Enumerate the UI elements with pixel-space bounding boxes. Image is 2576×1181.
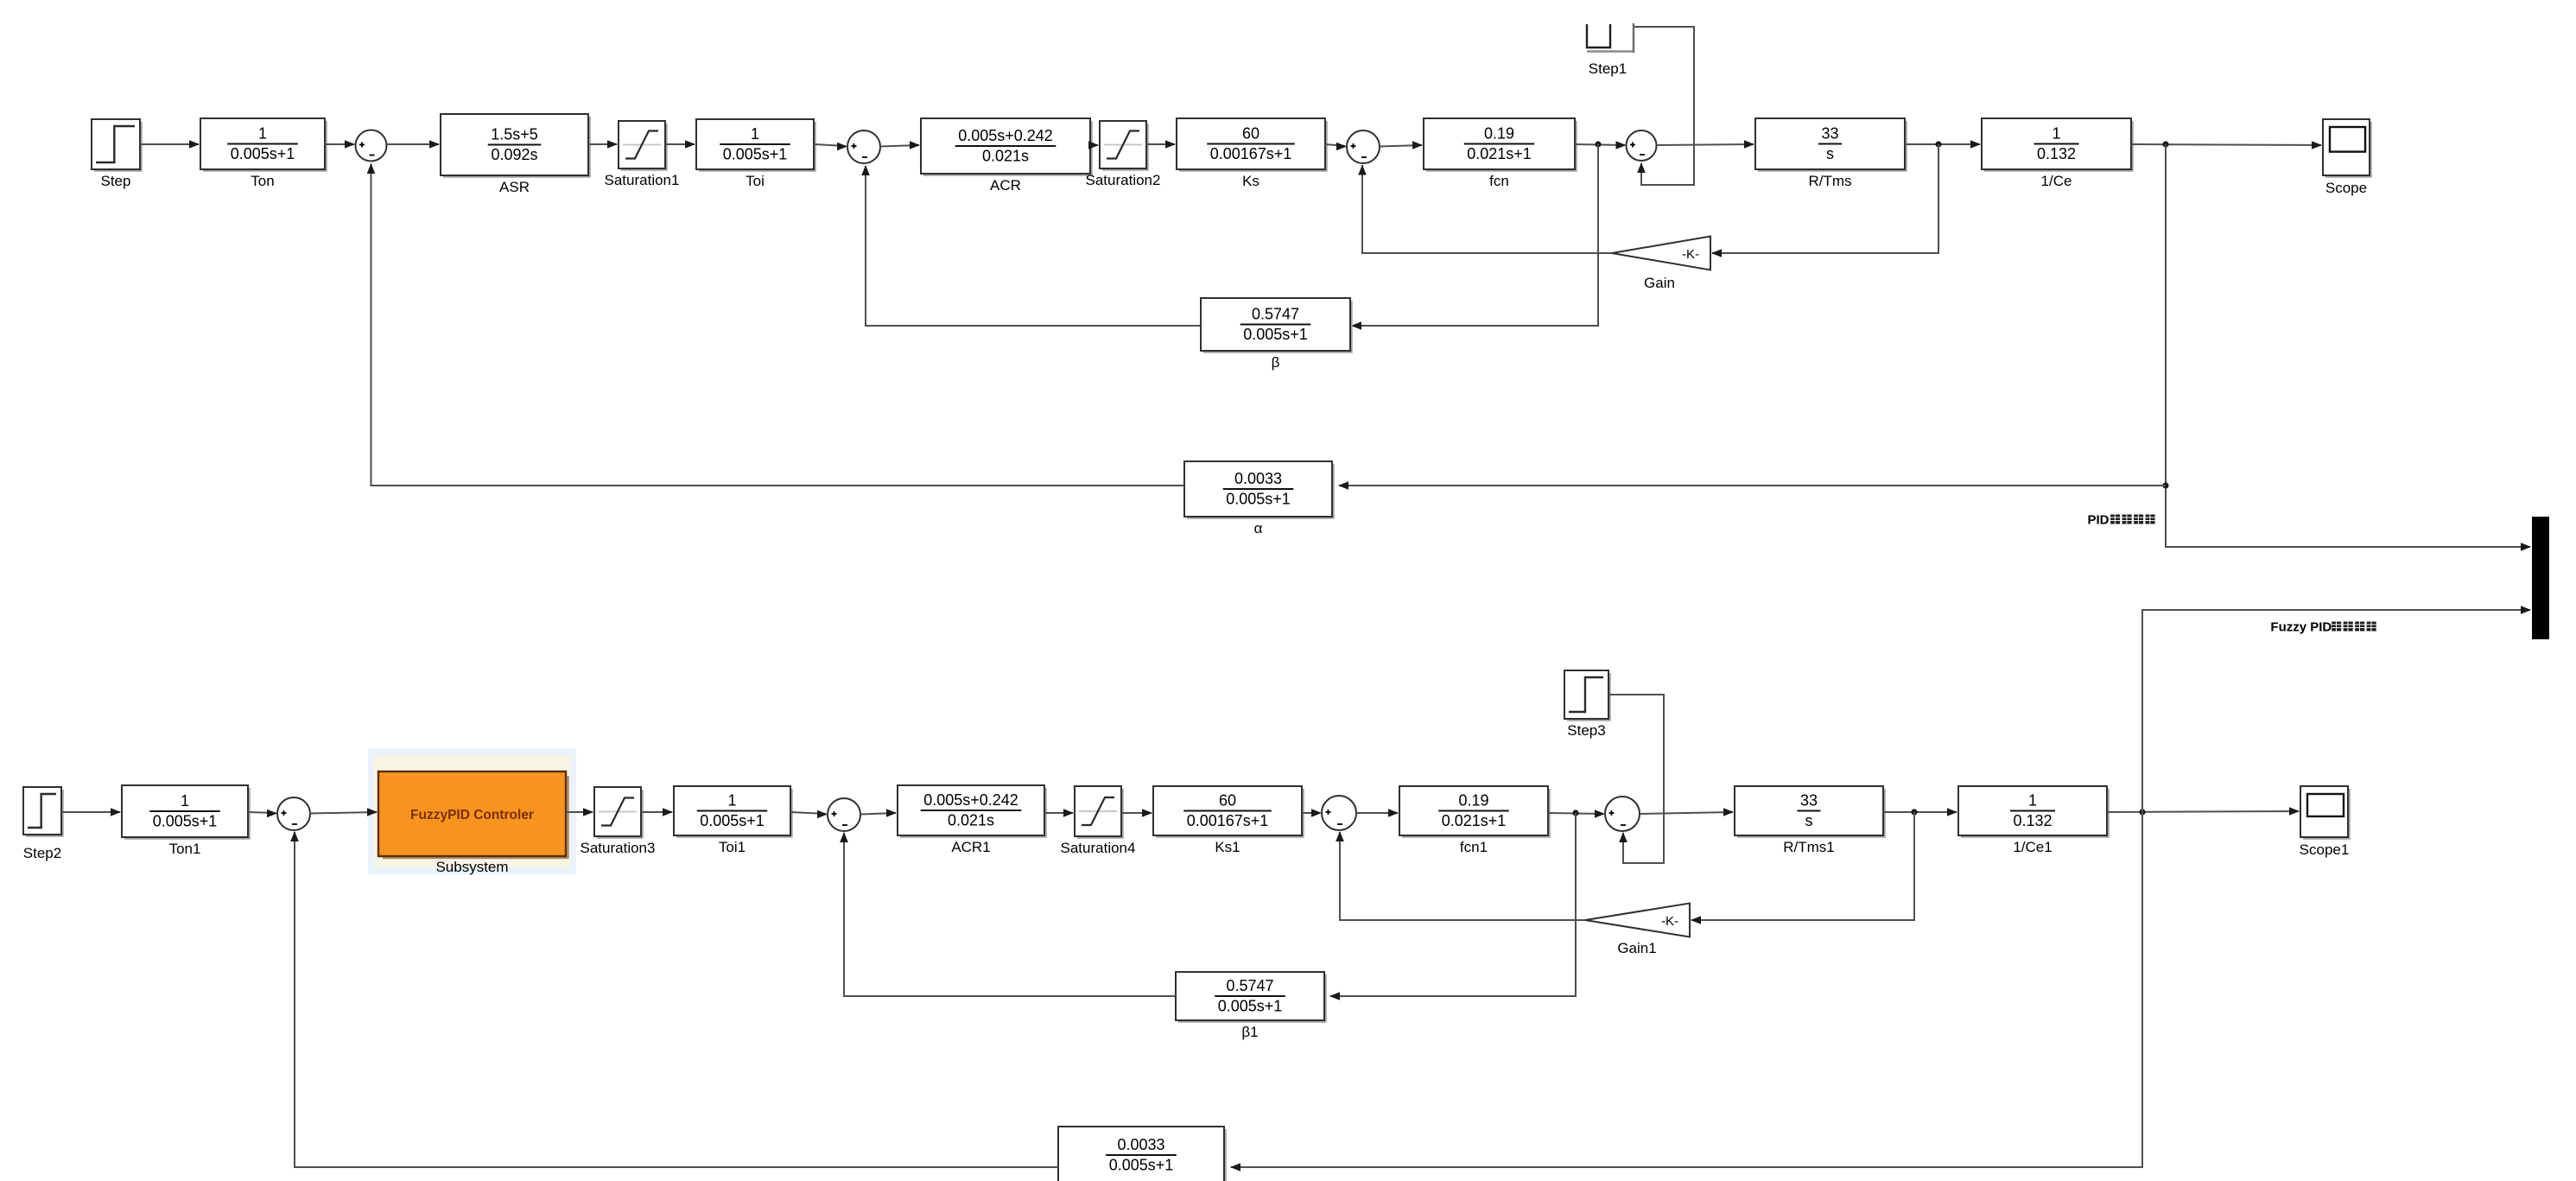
svg-text:0.005s+1: 0.005s+1 (1109, 1157, 1174, 1174)
svg-text:0.5747: 0.5747 (1252, 306, 1299, 323)
saturation block Saturation3 (641, 790, 644, 839)
wire beta output to Sum2 bottom input (866, 166, 1201, 326)
wire Sum2 to ACR (880, 145, 919, 147)
transfer function ACR1 (0.005s+0.242)/0.021s (1044, 788, 1047, 838)
svg-text:Toi1: Toi1 (719, 839, 746, 855)
svg-text:Toi: Toi (746, 173, 765, 189)
sum junction Sum3b (1322, 796, 1356, 830)
svg-text:0.005s+0.242: 0.005s+0.242 (923, 791, 1018, 809)
svg-text:Scope1: Scope1 (2300, 841, 2350, 858)
svg-text:0.005s+1: 0.005s+1 (1226, 491, 1291, 508)
svg-text:33: 33 (1821, 125, 1838, 143)
transfer function ACR (0.005s+0.242)/0.021s (1090, 121, 1093, 176)
wire Ton1 to Sum1b (248, 812, 276, 813)
wire alpha1 output to Sum1b bottom input (295, 832, 1058, 1167)
wire Ks1 to Sum3b (1302, 812, 1320, 814)
wire fcn1 to Sum4b with junction node (1548, 813, 1603, 814)
svg-text:Step3: Step3 (1567, 722, 1605, 739)
svg-text:Step: Step (101, 173, 131, 189)
svg-text:α: α (1254, 520, 1263, 537)
transfer function fcn 0.19/(0.021s+1) (1575, 121, 1577, 172)
svg-text:R/Tms1: R/Tms1 (1783, 839, 1835, 855)
transfer function alpha 0.0033/(0.005s+1) (1332, 464, 1335, 519)
sum junction Sum2b (828, 798, 860, 831)
wire Gain1 output to Sum3b bottom input (1340, 832, 1585, 920)
step source block Step3 (1608, 673, 1611, 721)
svg-text:0.021s+1: 0.021s+1 (1467, 145, 1532, 162)
wire Toi to Sum2 (814, 144, 846, 146)
svg-text:0.132: 0.132 (2013, 812, 2052, 829)
svg-text:Saturation2: Saturation2 (1086, 172, 1161, 188)
wire 1/Ce1 junction down to alpha1 block (1231, 812, 2142, 1167)
svg-text:β: β (1272, 354, 1280, 371)
svg-text:0.005s+1: 0.005s+1 (700, 812, 765, 829)
mux block (2532, 517, 2549, 639)
wire Subsystem to Saturation3 (566, 811, 593, 813)
wire Ks to Sum3 (1325, 144, 1345, 146)
wire ASR to Saturation1 (588, 143, 617, 145)
wire Sum3 to fcn (1380, 145, 1422, 147)
saturation block Saturation2 (1146, 124, 1149, 171)
svg-text:1.5s+5: 1.5s+5 (491, 126, 538, 143)
wire Sum4b to R/Tms1 (1640, 812, 1733, 814)
svg-text:Ton1: Ton1 (169, 841, 201, 857)
wire alpha output to Sum1 bottom input (371, 164, 1185, 486)
scope block Scope1 (2348, 789, 2351, 840)
svg-text:Ks1: Ks1 (1215, 839, 1240, 855)
wire Saturation3 to Toi1 (641, 811, 672, 813)
wire Step2 to Ton1 (61, 811, 120, 813)
wire Ton to Sum1 (325, 143, 354, 145)
transfer function R/Tms1 33/s (1883, 789, 1886, 838)
svg-text:1/Ce1: 1/Ce1 (2013, 839, 2052, 855)
wire 1/Ce1 junction up to mux (Fuzzy branch) (2142, 610, 2530, 812)
wire R/Tms junction down to Gain input (1712, 144, 1938, 253)
svg-text:0.005s+1: 0.005s+1 (1218, 998, 1283, 1015)
svg-text:0.092s: 0.092s (491, 146, 537, 163)
subsystem block FuzzyPID Controller (368, 748, 576, 874)
svg-text:1/Ce: 1/Ce (2041, 173, 2072, 189)
svg-text:0.005s+1: 0.005s+1 (231, 145, 295, 162)
svg-text:-K-: -K- (1682, 247, 1699, 262)
svg-text:fcn1: fcn1 (1460, 839, 1488, 855)
wire R/Tms to 1/Ce with junction node (1905, 143, 1980, 145)
svg-text:1: 1 (2028, 792, 2037, 810)
transfer function Ton1 1/(0.005s+1) (248, 788, 251, 840)
svg-text:0.0033: 0.0033 (1234, 470, 1282, 487)
svg-text:ASR: ASR (499, 179, 530, 195)
svg-text:0.5747: 0.5747 (1226, 977, 1273, 994)
sum junction Sum1b (277, 797, 310, 830)
svg-text:0.0033: 0.0033 (1117, 1136, 1164, 1153)
wire beta1 output to Sum2b bottom input (844, 833, 1176, 996)
transfer function alpha1 0.0033/(0.005s+1) (1224, 1129, 1227, 1181)
wire ACR1 to Saturation4 (1044, 812, 1073, 814)
svg-text:0.021s: 0.021s (982, 148, 1029, 165)
transfer function ASR (1.5s+5)/0.092s (588, 117, 591, 178)
saturation block Saturation1 (665, 124, 668, 171)
svg-text:0.005s+1: 0.005s+1 (153, 813, 218, 830)
svg-text:s: s (1826, 145, 1834, 162)
svg-text:1: 1 (181, 792, 189, 810)
wire Saturation1 to Toi (665, 143, 695, 145)
svg-text:60: 60 (1219, 792, 1236, 810)
svg-text:ACR1: ACR1 (951, 839, 990, 855)
svg-text:1: 1 (751, 125, 759, 143)
svg-text:FuzzyPID Controler: FuzzyPID Controler (410, 808, 534, 822)
wire Step to Ton (140, 143, 199, 145)
wire R/Tms1 to 1/Ce1 with junction node (1883, 811, 1957, 813)
svg-text:1: 1 (258, 125, 267, 143)
wire Sum4 to R/Tms (1657, 144, 1754, 145)
svg-text:Saturation4: Saturation4 (1061, 840, 1136, 856)
wire R/Tms1 junction down to Gain1 input (1691, 812, 1914, 920)
svg-text:0.19: 0.19 (1458, 792, 1488, 810)
wire 1/Ce junction down to alpha and mux (2166, 144, 2530, 547)
svg-text:R/Tms: R/Tms (1808, 173, 1851, 189)
svg-text:PID: PID (2087, 512, 2109, 527)
svg-text:33: 33 (1800, 792, 1818, 810)
gain block Gain -K- (1612, 237, 1710, 270)
wire ACR to Saturation2 (1090, 144, 1098, 146)
wire Sum1b to Subsystem (310, 812, 377, 814)
svg-text:Fuzzy PID: Fuzzy PID (2270, 619, 2332, 634)
svg-text:1: 1 (727, 792, 736, 810)
transfer function R/Tms 33/s (1905, 121, 1907, 172)
svg-text:0.132: 0.132 (2037, 145, 2076, 162)
transfer function 1/Ce 1/0.132 (2131, 121, 2134, 172)
scope block Scope (2370, 122, 2372, 178)
svg-text:ACR: ACR (990, 177, 1021, 194)
step source block Step (140, 122, 143, 172)
wire Sum3b to fcn1 (1356, 812, 1398, 814)
wire Step1 to Sum4 top input (1634, 27, 1694, 185)
svg-text:0.021s: 0.021s (948, 812, 994, 829)
wire Step3 to Sum4b top input (1608, 695, 1664, 863)
wire Gain output to Sum3 bottom input (1362, 165, 1612, 253)
svg-text:β1: β1 (1241, 1024, 1258, 1040)
sum junction Sum1 (356, 130, 387, 162)
wire 1/Ce to Scope with junction node (2131, 144, 2321, 145)
svg-text:Ton: Ton (251, 173, 274, 189)
transfer function Toi 1/(0.005s+1) (814, 122, 816, 172)
svg-text:0.00167s+1: 0.00167s+1 (1210, 145, 1292, 162)
svg-text:0.00167s+1: 0.00167s+1 (1187, 812, 1269, 829)
wire Saturation4 to Ks1 (1121, 812, 1152, 814)
svg-text:s: s (1805, 812, 1813, 829)
wire Sum2b to ACR1 (860, 813, 896, 815)
svg-text:-K-: -K- (1661, 914, 1678, 929)
svg-text:fcn: fcn (1489, 173, 1509, 189)
svg-text:0.19: 0.19 (1484, 125, 1514, 143)
svg-text:1: 1 (2052, 125, 2060, 143)
wire fcn junction down to beta block (1352, 144, 1598, 326)
wire fcn1 junction down to beta1 block (1330, 813, 1576, 996)
transfer function 1/Ce1 1/0.132 (2107, 789, 2110, 838)
wire Saturation2 to Ks (1146, 143, 1175, 145)
svg-text:Step1: Step1 (1589, 60, 1627, 77)
gain block Gain1 -K- (1585, 904, 1690, 937)
sum junction Sum4 (1627, 130, 1657, 161)
wire Sum1 to ASR (387, 143, 440, 145)
svg-text:0.021s+1: 0.021s+1 (1442, 812, 1507, 829)
svg-text:60: 60 (1242, 125, 1259, 143)
wire 1/Ce1 to Scope1 with junction node (2107, 811, 2299, 812)
wire Toi1 to Sum2b (790, 812, 826, 814)
sum junction Sum2 (847, 130, 880, 163)
svg-text:0.005s+0.242: 0.005s+0.242 (958, 127, 1053, 144)
transfer function Toi1 1/(0.005s+1) (790, 789, 793, 838)
wire fcn to Sum4 with junction node (1575, 144, 1625, 145)
sum junction Sum3 (1347, 130, 1380, 163)
svg-text:0.005s+1: 0.005s+1 (1243, 326, 1308, 343)
svg-text:Scope: Scope (2325, 180, 2367, 196)
saturation block Saturation4 (1121, 789, 1124, 839)
svg-text:Gain1: Gain1 (1617, 940, 1656, 956)
transfer function Ks1 60/(0.00167s+1) (1302, 789, 1304, 838)
transfer function beta 0.5747/(0.005s+1) (1350, 301, 1353, 353)
transfer function beta1 0.5747/(0.005s+1) (1324, 975, 1327, 1023)
transfer function fcn1 0.19/(0.021s+1) (1548, 789, 1551, 838)
svg-text:Saturation1: Saturation1 (605, 172, 680, 188)
step source block Step1 (1587, 24, 1610, 48)
svg-text:Subsystem: Subsystem (435, 859, 508, 875)
svg-text:Ks: Ks (1242, 173, 1259, 189)
svg-text:Step2: Step2 (23, 845, 61, 861)
wire alpha feedback branch (1339, 485, 2166, 486)
sum junction Sum4b (1605, 797, 1640, 831)
step source block Step2 (61, 790, 64, 837)
svg-text:0.005s+1: 0.005s+1 (723, 146, 788, 163)
transfer function Ton 1/(0.005s+1) (325, 121, 327, 172)
svg-text:Gain: Gain (1644, 275, 1675, 291)
svg-text:Saturation3: Saturation3 (581, 840, 656, 856)
transfer function Ks 60/(0.00167s+1) (1325, 121, 1328, 172)
